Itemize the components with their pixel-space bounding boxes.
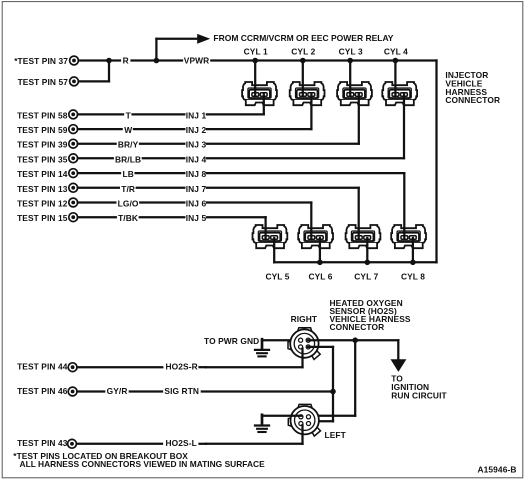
svg-text:TEST PIN 44: TEST PIN 44 <box>17 362 68 372</box>
test pin 37 terminal <box>70 56 79 65</box>
wire BR/LB segment b <box>143 157 185 159</box>
test pin 43 terminal <box>68 439 77 448</box>
svg-text:BR/LB: BR/LB <box>115 154 141 164</box>
node HO2S feed junction <box>352 337 358 343</box>
svg-text:T: T <box>126 110 132 120</box>
svg-text:T/BK: T/BK <box>118 213 138 223</box>
svg-text:LB: LB <box>123 169 134 179</box>
svg-text:RUN CIRCUIT: RUN CIRCUIT <box>391 391 447 401</box>
node VPWR tap CYL 4 <box>393 58 399 64</box>
wire INJ 4 riser to CYL 4 <box>403 95 405 159</box>
wire TP57 riser <box>79 80 109 82</box>
wire LB segment b <box>136 172 185 174</box>
svg-text:A15946-B: A15946-B <box>478 465 517 475</box>
svg-text:HO2S-L: HO2S-L <box>166 438 197 448</box>
wire right HO2S VPWR feed <box>308 339 398 341</box>
wire INJ 5 drop to CYL 5 <box>264 217 266 238</box>
wire VPWR bus main <box>211 59 436 61</box>
svg-text:CONNECTOR: CONNECTOR <box>445 95 500 105</box>
wire HO2S-L segment b <box>200 443 207 445</box>
svg-text:TEST PIN 57: TEST PIN 57 <box>18 77 69 87</box>
wire SIG RTN seg a <box>77 390 104 392</box>
wire INJ 7 segment c <box>207 187 359 189</box>
ground power ground left <box>255 415 269 432</box>
wire pwr gnd to right HO2S <box>262 339 301 341</box>
test pin 14 terminal <box>69 169 78 178</box>
wire T segment a <box>78 113 123 115</box>
wire SIG RTN seg b <box>130 390 162 392</box>
node bottom bus junction <box>410 260 416 266</box>
wire BR/Y segment b <box>140 143 184 145</box>
arrow to power relay <box>197 34 210 44</box>
wire INJ 1 segment c <box>207 113 264 115</box>
svg-text:SIG RTN: SIG RTN <box>164 386 199 396</box>
wire TP37 to node <box>79 59 120 61</box>
wire bottom power bus <box>274 261 436 263</box>
svg-text:INJ 5: INJ 5 <box>186 213 207 223</box>
wire SIG RTN from right HO2S <box>308 346 333 348</box>
wire HO2S-R segment <box>77 366 162 368</box>
wire VPWR drop to CYL 3 pin <box>349 61 351 95</box>
svg-text:TEST PIN 13: TEST PIN 13 <box>17 184 68 194</box>
wire T/R segment b <box>137 187 185 189</box>
svg-text:CYL 5: CYL 5 <box>265 272 289 282</box>
wire LG/O segment b <box>140 201 184 203</box>
node VPWR tap CYL 3 <box>347 58 353 64</box>
wire T segment b <box>133 113 185 115</box>
injector harness connector CYL 3 <box>337 82 372 105</box>
svg-text:TEST PIN 46: TEST PIN 46 <box>17 386 68 396</box>
svg-text:TEST PIN 39: TEST PIN 39 <box>17 140 68 150</box>
svg-text:HO2S-R: HO2S-R <box>166 362 198 372</box>
svg-text:RIGHT: RIGHT <box>291 314 318 324</box>
wire right HO2S signal drop <box>301 349 303 368</box>
injector harness connector CYL 7 <box>346 225 381 248</box>
svg-text:CYL 1: CYL 1 <box>244 46 268 56</box>
svg-text:CYL 2: CYL 2 <box>291 46 315 56</box>
wire BR/LB segment a <box>78 157 113 159</box>
wire LG/O segment a <box>78 201 116 203</box>
test pin 46 terminal <box>68 387 77 396</box>
svg-text:INJ 4: INJ 4 <box>186 154 207 164</box>
svg-text:FROM CCRM/VCRM OR EEC POWER RE: FROM CCRM/VCRM OR EEC POWER RELAY <box>213 33 393 43</box>
wire right VPWR bus <box>435 61 437 263</box>
svg-text:ALL HARNESS CONNECTORS VIEWED: ALL HARNESS CONNECTORS VIEWED IN MATING … <box>20 459 266 469</box>
svg-text:TEST PIN 14: TEST PIN 14 <box>17 169 68 179</box>
wire CYL 7 pin drop to power bus <box>366 238 368 262</box>
test pin 59 terminal <box>69 125 78 134</box>
wire SIG RTN to left HO2S <box>332 392 334 422</box>
node bottom bus junction <box>365 260 371 266</box>
injector harness connector CYL 6 <box>298 225 333 248</box>
svg-text:INJ 2: INJ 2 <box>186 125 207 135</box>
wire SIG RTN seg c <box>202 390 333 392</box>
node SIG RTN junction <box>330 389 336 395</box>
svg-text:BR/Y: BR/Y <box>118 140 139 150</box>
test pin 57 terminal <box>70 77 79 86</box>
test pin 13 terminal <box>69 183 78 192</box>
injector harness connector CYL 1 <box>242 82 277 105</box>
node bottom bus junction <box>317 260 323 266</box>
svg-text:LG/O: LG/O <box>118 199 139 209</box>
wire riser to relay arrow <box>155 39 157 61</box>
wire HO2S-R segment b <box>200 366 207 368</box>
wire CYL 6 pin drop to power bus <box>319 238 321 262</box>
svg-text:VPWR: VPWR <box>184 55 210 65</box>
svg-text:TEST PIN 12: TEST PIN 12 <box>17 199 68 209</box>
svg-text:R: R <box>123 56 129 66</box>
wire HO2S-L segment <box>77 443 162 445</box>
wire INJ 8 drop to CYL 8 <box>403 173 405 238</box>
svg-text:INJ 7: INJ 7 <box>186 184 207 194</box>
test pin 44 terminal <box>68 363 77 372</box>
svg-text:*TEST PIN 37: *TEST PIN 37 <box>14 56 68 66</box>
node junction TP57/VPWR <box>106 58 112 64</box>
svg-text:W: W <box>124 125 132 135</box>
HO2S right connector <box>288 328 320 360</box>
wire feed down to left HO2S <box>354 340 356 416</box>
wire gnd to left HO2S <box>262 415 301 417</box>
svg-text:INJ 1: INJ 1 <box>186 110 207 120</box>
injector harness connector CYL 8 <box>391 225 426 248</box>
svg-text:TEST PIN 43: TEST PIN 43 <box>17 438 68 448</box>
wire left HO2S signal drop <box>301 425 303 444</box>
wire INJ 6 drop to CYL 6 <box>310 203 312 239</box>
test pin 39 terminal <box>69 139 78 148</box>
wire W segment a <box>78 128 122 130</box>
svg-text:TEST PIN 59: TEST PIN 59 <box>17 125 68 135</box>
wire INJ 2 riser to CYL 2 <box>310 95 312 130</box>
wire BR/Y segment a <box>78 143 116 145</box>
test pin 58 terminal <box>69 110 78 119</box>
arrow to ignition run circuit <box>391 359 407 372</box>
svg-text:CYL 4: CYL 4 <box>384 46 408 56</box>
svg-text:CYL 6: CYL 6 <box>308 272 332 282</box>
wire INJ 1 riser to CYL 1 <box>263 95 265 115</box>
svg-text:TEST PIN 35: TEST PIN 35 <box>17 154 68 164</box>
svg-text:TEST PIN 58: TEST PIN 58 <box>17 110 68 120</box>
svg-text:INJ 6: INJ 6 <box>186 199 207 209</box>
ground power ground right <box>255 339 269 356</box>
wire INJ 8 segment c <box>207 172 404 174</box>
HO2S left connector <box>288 404 320 436</box>
svg-text:CYL 8: CYL 8 <box>401 272 425 282</box>
wire INJ 5 segment c <box>207 216 266 218</box>
node VPWR tap CYL 2 <box>300 58 306 64</box>
wire INJ 2 segment c <box>207 128 312 130</box>
wire VPWR drop to CYL 4 pin <box>394 61 396 95</box>
svg-text:LEFT: LEFT <box>325 430 347 440</box>
wire CYL 5 pin drop to power bus <box>273 238 275 262</box>
wire CYL 8 pin drop to power bus <box>412 238 414 262</box>
wire INJ 3 riser to CYL 3 <box>358 95 360 144</box>
test pin 35 terminal <box>69 154 78 163</box>
svg-text:INJ 3: INJ 3 <box>186 140 207 150</box>
injector harness connector CYL 2 <box>290 82 325 105</box>
wire W segment b <box>134 128 184 130</box>
svg-text:CYL 7: CYL 7 <box>354 272 378 282</box>
wire T/BK segment b <box>140 216 185 218</box>
wire INJ 3 segment c <box>207 143 359 145</box>
wire T/BK segment a <box>78 216 116 218</box>
wire VPWR drop to CYL 1 pin <box>254 61 256 95</box>
wire VPWR bus segment <box>132 59 183 61</box>
test pin 15 terminal <box>69 213 78 222</box>
node VPWR tap CYL 1 <box>252 58 258 64</box>
test pin 12 terminal <box>69 198 78 207</box>
wire LB segment a <box>78 172 120 174</box>
svg-text:INJ 8: INJ 8 <box>186 169 207 179</box>
wire INJ 7 drop to CYL 7 <box>358 188 360 238</box>
wire VPWR drop to CYL 2 pin <box>302 61 304 95</box>
svg-text:TO PWR GND: TO PWR GND <box>204 336 259 346</box>
svg-text:T/R: T/R <box>121 184 135 194</box>
wire INJ 4 segment c <box>207 157 404 159</box>
svg-text:TEST PIN 15: TEST PIN 15 <box>17 213 68 223</box>
node arrow riser junction <box>154 58 160 64</box>
injector harness connector CYL 4 <box>382 82 417 105</box>
wire to ignition drop <box>397 340 399 360</box>
wire T/R segment a <box>78 187 119 189</box>
injector harness connector CYL 5 <box>253 225 288 248</box>
svg-text:GY/R: GY/R <box>107 386 128 396</box>
svg-text:CYL 3: CYL 3 <box>339 46 363 56</box>
wire INJ 6 segment c <box>207 201 311 203</box>
svg-text:CONNECTOR: CONNECTOR <box>330 322 385 332</box>
